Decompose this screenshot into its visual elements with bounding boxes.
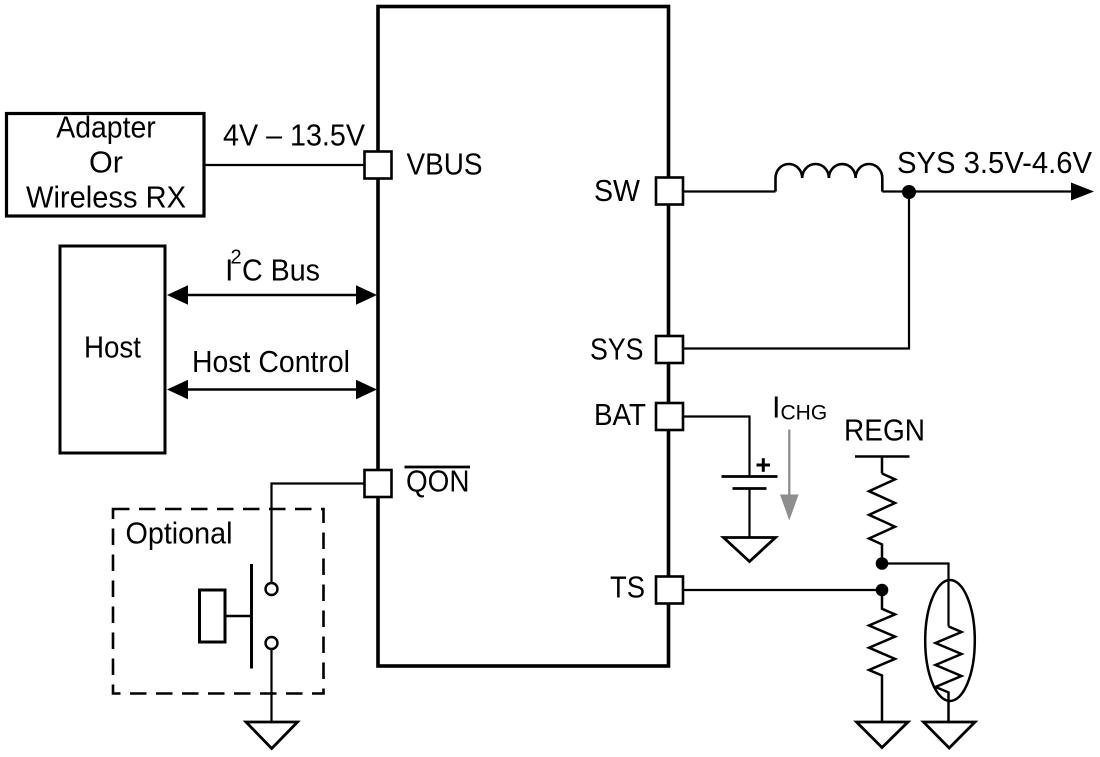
Optional dashed box xyxy=(113,509,324,694)
wire TS to divider xyxy=(683,589,882,591)
gray arrow ICHG xyxy=(780,430,799,521)
wire node to SYS pin xyxy=(684,192,909,349)
svg-text:2: 2 xyxy=(231,247,242,269)
svg-text:CHG: CHG xyxy=(781,402,828,425)
wire switch to ground xyxy=(270,649,272,722)
node dot at SYS output xyxy=(902,185,916,199)
svg-text:C Bus: C Bus xyxy=(242,254,320,288)
pin BAT xyxy=(594,398,683,432)
ground (R2) xyxy=(857,722,909,748)
ground (battery) xyxy=(724,538,776,562)
pin QON (active low) xyxy=(365,465,471,499)
pin SW xyxy=(594,174,683,208)
node dot upper xyxy=(876,557,889,570)
pin TS xyxy=(610,571,683,605)
pushbutton switch S1 xyxy=(200,564,278,669)
svg-text:Optional: Optional xyxy=(126,517,233,551)
svg-text:Host: Host xyxy=(84,331,141,365)
node dot lower xyxy=(876,584,889,597)
svg-text:Adapter: Adapter xyxy=(56,111,156,145)
ground (thermistor) xyxy=(924,722,976,748)
svg-text:REGN: REGN xyxy=(844,414,925,448)
Host Control double arrow wire xyxy=(167,380,377,399)
REGN terminal xyxy=(855,457,910,474)
I2C Bus double arrow wire xyxy=(167,285,377,304)
I2C Bus label xyxy=(225,247,320,288)
svg-text:SW: SW xyxy=(594,174,640,208)
svg-text:SYS 3.5V-4.6V: SYS 3.5V-4.6V xyxy=(897,146,1093,180)
pin SYS xyxy=(590,333,683,367)
svg-text:Wireless RX: Wireless RX xyxy=(26,181,186,215)
svg-text:Host Control: Host Control xyxy=(192,345,350,379)
svg-text:SYS: SYS xyxy=(590,333,644,367)
wire inductor to SYS output arrow xyxy=(882,183,1094,201)
thermistor RT1 xyxy=(925,580,975,722)
Host box xyxy=(60,246,165,453)
Adapter Or Wireless RX box xyxy=(7,111,205,217)
svg-text:4V – 13.5V: 4V – 13.5V xyxy=(223,119,366,153)
ground (switch) xyxy=(246,722,298,749)
resistor R2 xyxy=(869,590,895,722)
resistor R1 xyxy=(869,474,895,564)
wire BAT to battery xyxy=(683,417,750,477)
IC U1 (main charger IC body) xyxy=(378,7,669,667)
inductor L1 xyxy=(776,164,883,192)
wire QON to switch xyxy=(272,484,365,584)
wire node to thermistor xyxy=(882,564,949,627)
svg-text:I: I xyxy=(772,391,780,425)
battery BT1 xyxy=(722,458,778,536)
svg-text:BAT: BAT xyxy=(594,398,646,432)
svg-text:VBUS: VBUS xyxy=(407,148,483,182)
svg-text:QON: QON xyxy=(406,465,470,499)
svg-text:TS: TS xyxy=(610,571,645,605)
pin VBUS xyxy=(365,148,483,182)
svg-text:Or: Or xyxy=(89,146,123,180)
wire SW to inductor xyxy=(683,190,776,192)
label ICHG xyxy=(772,391,827,425)
wire adapter to VBUS xyxy=(205,164,366,166)
